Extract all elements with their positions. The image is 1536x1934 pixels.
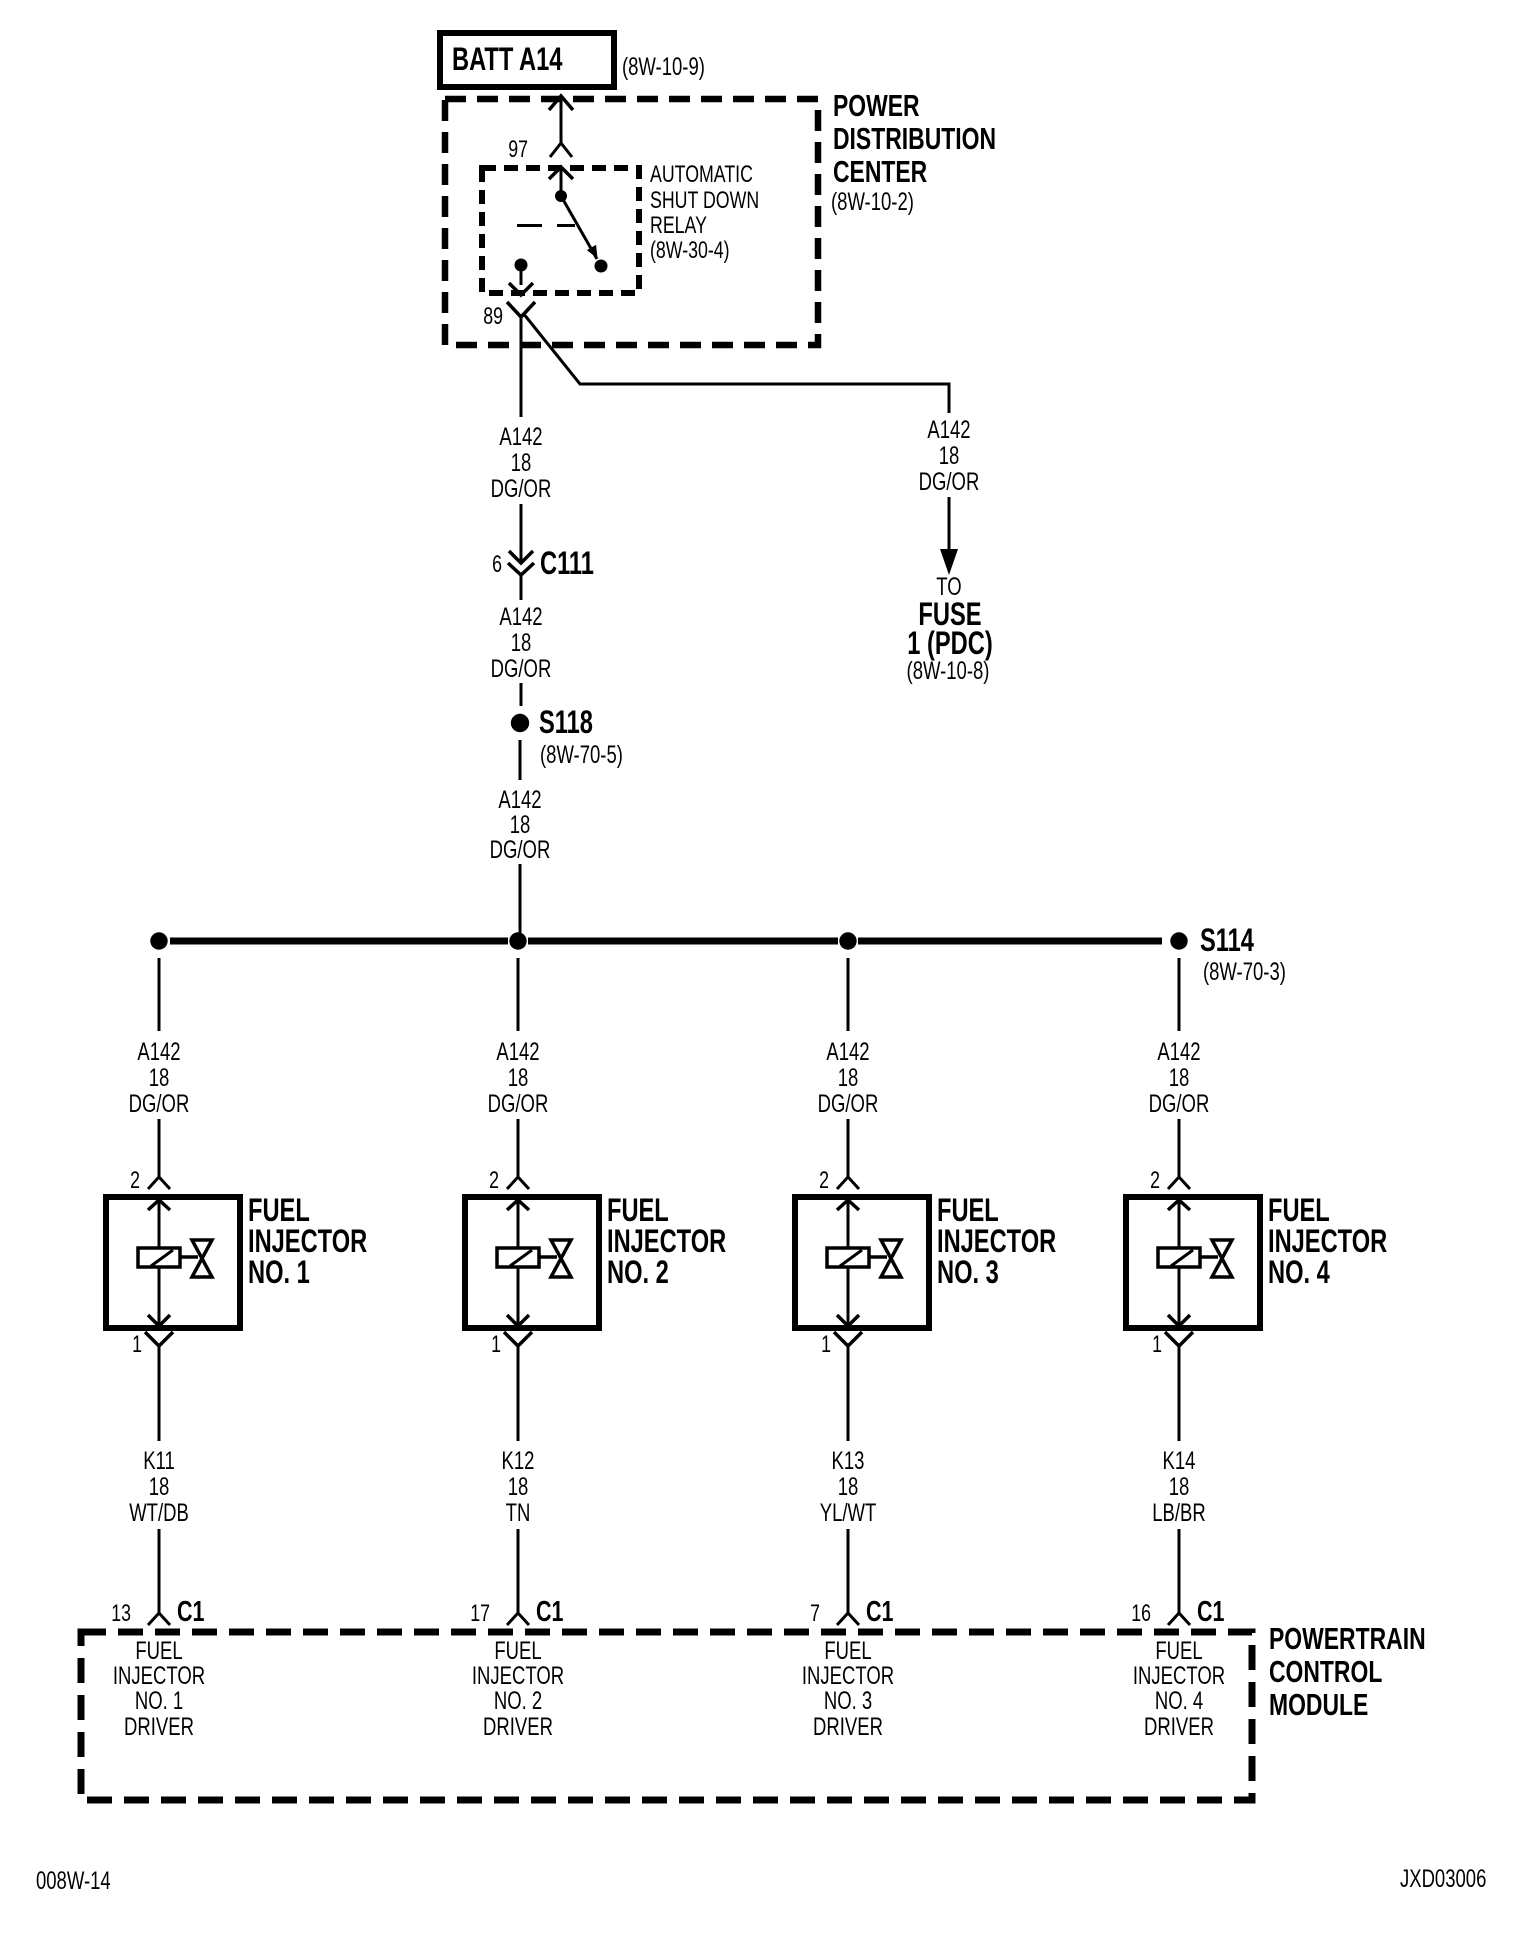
svg-text:1: 1 [821,1332,831,1358]
svg-text:NO. 4: NO. 4 [1155,1686,1203,1714]
svg-text:(8W-30-4): (8W-30-4) [650,238,730,264]
svg-text:DG/OR: DG/OR [488,1089,549,1117]
svg-text:DG/OR: DG/OR [919,467,980,495]
svg-text:DISTRIBUTION: DISTRIBUTION [833,121,996,156]
svg-text:K14: K14 [1163,1446,1196,1474]
svg-text:INJECTOR: INJECTOR [937,1224,1056,1259]
svg-text:18: 18 [939,441,960,469]
svg-text:7: 7 [810,1601,820,1627]
svg-text:K13: K13 [832,1446,865,1474]
svg-text:C1: C1 [1197,1596,1224,1628]
svg-text:C111: C111 [540,546,594,581]
svg-text:1: 1 [491,1332,501,1358]
svg-text:INJECTOR: INJECTOR [607,1224,726,1259]
svg-text:NO. 4: NO. 4 [1268,1255,1330,1290]
svg-text:18: 18 [838,1472,859,1500]
svg-text:TN: TN [506,1498,531,1526]
svg-text:DG/OR: DG/OR [491,474,552,502]
svg-text:(8W-70-5): (8W-70-5) [540,740,623,768]
svg-text:NO. 2: NO. 2 [494,1686,542,1714]
svg-text:008W-14: 008W-14 [36,1866,111,1894]
svg-text:DG/OR: DG/OR [491,654,552,682]
svg-text:2: 2 [130,1168,140,1194]
svg-text:1: 1 [132,1332,142,1358]
svg-text:16: 16 [1131,1601,1151,1627]
svg-text:S118: S118 [539,705,593,740]
svg-text:DG/OR: DG/OR [129,1089,190,1117]
svg-text:NO. 1: NO. 1 [248,1255,310,1290]
svg-text:K11: K11 [143,1446,175,1474]
svg-text:C1: C1 [536,1596,563,1628]
svg-text:A142: A142 [1157,1037,1200,1065]
svg-text:18: 18 [508,1472,529,1500]
svg-text:CONTROL: CONTROL [1269,1654,1382,1689]
svg-text:(8W-10-2): (8W-10-2) [831,187,914,215]
svg-text:JXD03006: JXD03006 [1400,1864,1486,1892]
svg-text:2: 2 [489,1168,499,1194]
svg-text:AUTOMATIC: AUTOMATIC [650,162,753,188]
svg-text:18: 18 [1169,1063,1190,1091]
svg-text:18: 18 [508,1063,529,1091]
svg-text:POWERTRAIN: POWERTRAIN [1269,1621,1426,1656]
svg-text:DRIVER: DRIVER [483,1712,553,1740]
svg-text:FUEL: FUEL [937,1193,999,1228]
svg-text:DRIVER: DRIVER [813,1712,883,1740]
svg-text:2: 2 [1150,1168,1160,1194]
svg-text:13: 13 [111,1601,131,1627]
svg-text:INJECTOR: INJECTOR [1268,1224,1387,1259]
svg-text:CENTER: CENTER [833,154,928,189]
svg-text:17: 17 [470,1601,490,1627]
svg-text:C1: C1 [866,1596,893,1628]
svg-text:FUEL: FUEL [1268,1193,1330,1228]
svg-text:NO. 1: NO. 1 [135,1686,183,1714]
svg-text:A142: A142 [499,422,542,450]
svg-text:DRIVER: DRIVER [124,1712,194,1740]
svg-text:A142: A142 [927,415,970,443]
svg-text:NO. 3: NO. 3 [937,1255,999,1290]
svg-text:DG/OR: DG/OR [818,1089,879,1117]
svg-text:SHUT DOWN: SHUT DOWN [650,188,759,214]
svg-text:LB/BR: LB/BR [1152,1498,1205,1526]
svg-text:A142: A142 [137,1037,180,1065]
svg-text:FUEL: FUEL [248,1193,310,1228]
svg-text:18: 18 [149,1472,170,1500]
svg-text:18: 18 [1169,1472,1190,1500]
svg-text:RELAY: RELAY [650,213,707,239]
svg-text:INJECTOR: INJECTOR [248,1224,367,1259]
svg-text:18: 18 [838,1063,859,1091]
svg-text:S114: S114 [1200,923,1254,958]
svg-text:K12: K12 [502,1446,535,1474]
svg-text:A142: A142 [826,1037,869,1065]
svg-text:A142: A142 [499,602,542,630]
svg-text:YL/WT: YL/WT [820,1498,877,1526]
svg-text:DG/OR: DG/OR [1149,1089,1210,1117]
svg-text:(8W-10-9): (8W-10-9) [622,52,705,80]
svg-text:18: 18 [149,1063,170,1091]
svg-text:BATT A14: BATT A14 [452,42,563,77]
svg-text:2: 2 [819,1168,829,1194]
svg-text:DG/OR: DG/OR [490,835,551,863]
svg-text:FUEL: FUEL [607,1193,669,1228]
svg-text:MODULE: MODULE [1269,1687,1368,1722]
svg-text:C1: C1 [177,1596,204,1628]
svg-text:18: 18 [511,628,532,656]
svg-text:97: 97 [508,137,528,163]
svg-text:NO. 2: NO. 2 [607,1255,669,1290]
svg-text:(8W-10-8): (8W-10-8) [907,656,990,684]
svg-text:89: 89 [483,304,503,330]
svg-text:DRIVER: DRIVER [1144,1712,1214,1740]
svg-text:POWER: POWER [833,88,920,123]
svg-text:6: 6 [492,552,502,578]
svg-text:A142: A142 [496,1037,539,1065]
svg-text:1: 1 [1152,1332,1162,1358]
svg-text:(8W-70-3): (8W-70-3) [1203,957,1286,985]
svg-text:18: 18 [511,448,532,476]
svg-text:WT/DB: WT/DB [129,1498,189,1526]
svg-text:NO. 3: NO. 3 [824,1686,872,1714]
